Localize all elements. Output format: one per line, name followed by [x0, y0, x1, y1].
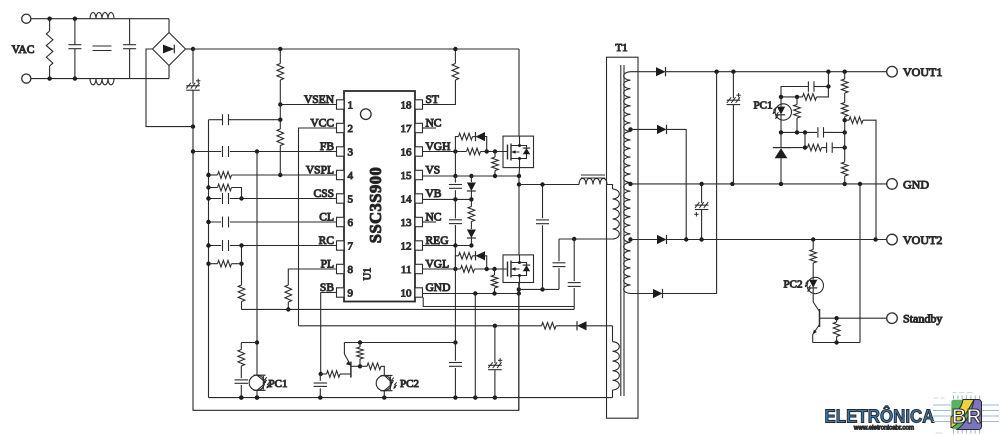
svg-text:9: 9 — [348, 288, 354, 300]
svg-text:VOUT2: VOUT2 — [903, 233, 942, 247]
svg-text:11: 11 — [401, 264, 412, 276]
svg-text:www.eletronicabr.com: www.eletronicabr.com — [853, 425, 914, 432]
svg-text:SSC3S900: SSC3S900 — [366, 167, 385, 243]
svg-text:U1: U1 — [363, 268, 374, 281]
svg-text:2: 2 — [348, 123, 354, 135]
svg-text:7: 7 — [348, 241, 354, 253]
svg-text:17: 17 — [401, 123, 413, 135]
svg-text:14: 14 — [401, 194, 413, 206]
svg-text:16: 16 — [401, 147, 413, 159]
svg-text:8: 8 — [348, 264, 354, 276]
svg-text:1: 1 — [348, 100, 354, 112]
svg-text:15: 15 — [401, 170, 413, 182]
svg-text:6: 6 — [348, 217, 354, 229]
svg-text:4: 4 — [348, 170, 354, 182]
svg-text:PC1: PC1 — [754, 100, 773, 112]
svg-text:GND: GND — [426, 282, 451, 294]
svg-text:PC1: PC1 — [269, 378, 288, 390]
svg-text:VAC: VAC — [12, 44, 35, 56]
svg-text:PC2: PC2 — [400, 378, 419, 390]
svg-text:10: 10 — [401, 288, 413, 300]
svg-text:5: 5 — [348, 194, 354, 206]
svg-text:18: 18 — [401, 100, 413, 112]
svg-text:12: 12 — [401, 241, 412, 253]
svg-text:3: 3 — [348, 147, 354, 159]
svg-text:Standby: Standby — [903, 312, 942, 326]
svg-text:PC2: PC2 — [784, 279, 803, 291]
svg-text:T1: T1 — [615, 42, 627, 54]
svg-text:BR: BR — [952, 406, 982, 428]
svg-text:ELETRÔNICA: ELETRÔNICA — [825, 405, 935, 427]
svg-text:VS: VS — [426, 165, 441, 177]
svg-text:13: 13 — [401, 217, 413, 229]
svg-text:GND: GND — [903, 177, 929, 191]
svg-text:VB: VB — [426, 188, 442, 200]
svg-text:VOUT1: VOUT1 — [903, 65, 942, 79]
